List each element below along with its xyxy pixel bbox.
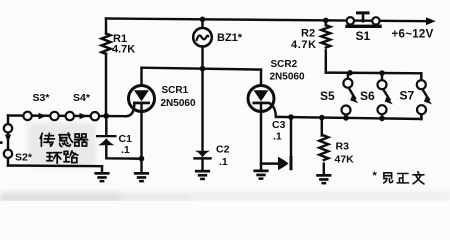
svg-text:S5: S5 xyxy=(320,89,335,103)
svg-text:47K: 47K xyxy=(335,154,355,166)
svg-text:C2: C2 xyxy=(216,144,230,156)
svg-text:S3*: S3* xyxy=(33,92,51,104)
svg-text:S2*: S2* xyxy=(15,152,33,164)
svg-text:4.7K: 4.7K xyxy=(291,39,317,51)
svg-text:4.7K: 4.7K xyxy=(112,44,135,56)
svg-text:S1: S1 xyxy=(356,29,371,43)
svg-text:S6: S6 xyxy=(360,89,375,103)
svg-text:SCR2: SCR2 xyxy=(271,59,298,70)
svg-text:.1: .1 xyxy=(219,156,228,168)
svg-text:+6~12V: +6~12V xyxy=(392,29,434,41)
svg-text:R3: R3 xyxy=(336,141,350,153)
svg-text:.1: .1 xyxy=(121,144,130,156)
svg-text:R2: R2 xyxy=(301,28,315,40)
svg-text:SCR1: SCR1 xyxy=(162,85,189,96)
svg-text:2N5060: 2N5060 xyxy=(161,98,196,109)
svg-text:2N5060: 2N5060 xyxy=(270,72,305,83)
svg-text:*: * xyxy=(373,170,378,182)
svg-text:S7: S7 xyxy=(400,88,415,102)
svg-text:S4*: S4* xyxy=(73,92,91,104)
svg-text:C3: C3 xyxy=(272,119,286,131)
svg-text:.1: .1 xyxy=(273,131,282,143)
svg-text:BZ1*: BZ1* xyxy=(217,32,243,44)
